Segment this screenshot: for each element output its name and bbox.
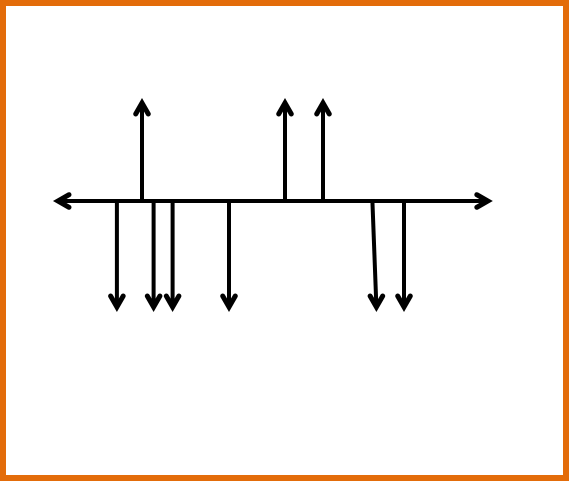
down impulse arrow 5 (slightly slanted) [370, 201, 383, 307]
down impulse arrow 2 [147, 201, 160, 307]
right axis arrowhead [477, 195, 488, 208]
up impulse arrow 3 [317, 103, 330, 201]
wire: horizontal axis line [58, 199, 488, 203]
down impulse arrow 6 [398, 201, 411, 307]
up impulse arrow 1 [136, 103, 149, 201]
axis (horizontal line with arrowheads both ends) [58, 195, 488, 208]
down impulse arrow 4 [223, 201, 236, 307]
down impulse arrow 1 [111, 201, 124, 307]
left axis arrowhead [58, 195, 69, 208]
up impulse arrow 2 [279, 103, 292, 201]
down impulse arrow 3 [166, 201, 179, 307]
